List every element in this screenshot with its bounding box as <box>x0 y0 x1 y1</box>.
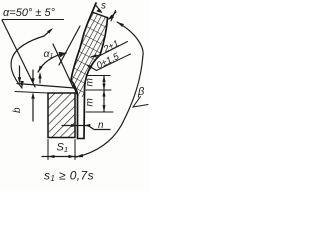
svg-text:m: m <box>85 98 96 106</box>
label underline <box>2 19 64 21</box>
beta big arc <box>76 22 143 157</box>
svg-text:n: n <box>98 120 104 131</box>
svg-text:s1 ≥ 0,7s: s1 ≥ 0,7s <box>44 169 94 184</box>
n dimension <box>62 126 110 130</box>
sheet lower face <box>71 3 96 139</box>
s dimension at top <box>111 11 116 22</box>
svg-text:s: s <box>101 1 106 12</box>
m dimension line with arrows <box>103 76 105 112</box>
alpha1 arc <box>38 53 66 72</box>
svg-text:m: m <box>85 78 96 86</box>
sheet end cut <box>92 12 107 18</box>
beta label shelf with open arrow <box>133 97 148 108</box>
ext line: plate top plane <box>15 92 48 94</box>
svg-text:α=50° ± 5°: α=50° ± 5° <box>3 7 56 19</box>
construction line steep <box>53 44 73 87</box>
svg-text:S1: S1 <box>57 142 69 155</box>
alpha leader line <box>2 20 35 87</box>
sheet bottom edge <box>78 138 85 140</box>
sheet upper face <box>84 18 108 139</box>
alpha arc <box>11 36 44 88</box>
weld root thickening <box>74 86 77 93</box>
b dimension arrows <box>19 66 21 82</box>
s1 dimension <box>47 140 49 160</box>
inner construction line of sheet <box>59 26 80 65</box>
ext line: sheet tip plane <box>17 84 75 89</box>
svg-text:b: b <box>12 107 23 113</box>
alpha leader arrow <box>44 30 52 37</box>
0+-1,5 leader with arrow <box>97 54 131 71</box>
right m dimension ext lines <box>87 75 110 77</box>
svg-text:β: β <box>137 86 145 98</box>
sheet (bent strip, thickness s), hatched <box>71 12 107 97</box>
svg-text:α1: α1 <box>44 48 54 60</box>
2+-1 leader with arrow <box>101 42 128 56</box>
plate (vertical, thickness s1), hatched <box>48 93 75 138</box>
